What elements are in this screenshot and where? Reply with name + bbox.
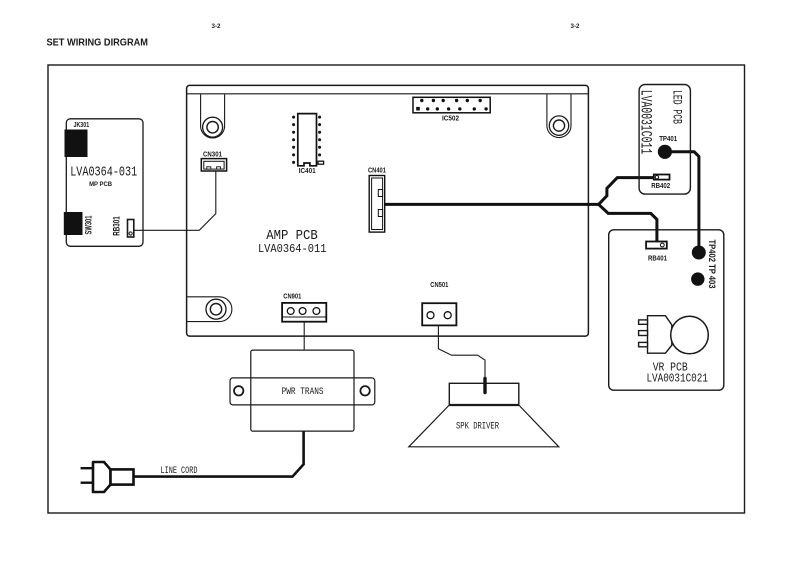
svg-text:PWR TRANS: PWR TRANS (282, 386, 324, 398)
wire PWR TRANS to line cord (134, 431, 304, 477)
jack JK301 (65, 120, 90, 157)
connector CN301 (201, 150, 226, 172)
svg-text:LVA0364-031: LVA0364-031 (70, 164, 137, 180)
svg-text:SPK DRIVER: SPK DRIVER (456, 421, 499, 432)
svg-text:TP402 TP 403: TP402 TP 403 (707, 240, 717, 289)
svg-text:IC502: IC502 (442, 113, 459, 122)
svg-text:SET WIRING DIRGRAM: SET WIRING DIRGRAM (47, 37, 149, 49)
svg-text:LED PCB: LED PCB (669, 90, 684, 124)
resistor block RB301 (112, 216, 134, 237)
test point TP403 (691, 272, 704, 285)
AMP PCB board LVA0364-011 (187, 85, 589, 336)
MP PCB board LVA0364-031 (66, 119, 143, 247)
svg-text:3-2: 3-2 (571, 23, 581, 30)
transformer PWR TRANS (230, 350, 375, 431)
mounting tab bottom-left (187, 297, 232, 322)
switch SW301 (64, 212, 94, 235)
svg-text:CN901: CN901 (283, 292, 301, 301)
test point TP401 (658, 134, 677, 159)
connector CN501 (422, 280, 456, 326)
connector CN401 (368, 165, 386, 232)
wire fork lower branch to RB401 (599, 204, 657, 241)
svg-text:LVA0031C021: LVA0031C021 (646, 372, 708, 386)
potentiometer VR (body) (639, 316, 709, 354)
LED PCB board LVA0031C011 (636, 85, 690, 195)
connector CN901 (282, 292, 326, 322)
wire RB301 to CN301 (134, 171, 216, 230)
test point TP402 (692, 246, 706, 260)
svg-text:CN501: CN501 (430, 280, 448, 289)
svg-text:LVA0364-011: LVA0364-011 (258, 242, 327, 256)
connector IC502 (413, 97, 490, 122)
AC plug (line cord) (81, 462, 134, 492)
svg-text:MP PCB: MP PCB (89, 181, 112, 188)
IC U IC401 (292, 114, 324, 175)
wire CN401 to fork junction (385, 203, 599, 206)
svg-text:3-2: 3-2 (212, 23, 222, 30)
svg-text:JK301: JK301 (74, 120, 90, 129)
svg-text:RB401: RB401 (648, 253, 667, 262)
wire TP401 to TP402 (670, 152, 699, 247)
svg-text:LINE CORD: LINE CORD (161, 465, 198, 477)
svg-text:IC401: IC401 (299, 166, 316, 175)
svg-text:CN401: CN401 (368, 165, 386, 174)
mounting tab top-right (547, 94, 571, 137)
svg-text:CN301: CN301 (203, 150, 222, 159)
svg-text:TP401: TP401 (659, 134, 677, 143)
svg-text:RB402: RB402 (651, 181, 670, 190)
speaker SPK DRIVER (409, 383, 559, 447)
mounting tab top-left (201, 94, 225, 138)
svg-text:LVA0031C011: LVA0031C011 (636, 90, 654, 155)
svg-text:RB301: RB301 (112, 216, 122, 236)
wire CN901 to PWR TRANS (303, 322, 305, 350)
wire fork upper branch to RB402 (599, 178, 654, 205)
resistor block RB402 (651, 175, 670, 190)
wire CN501 to SPK DRIVER (438, 325, 485, 380)
VR PCB board LVA0031C021 (609, 230, 724, 390)
terminal bar at SPK (483, 379, 486, 393)
resistor block RB401 (646, 242, 667, 263)
svg-text:SW301: SW301 (83, 216, 93, 235)
